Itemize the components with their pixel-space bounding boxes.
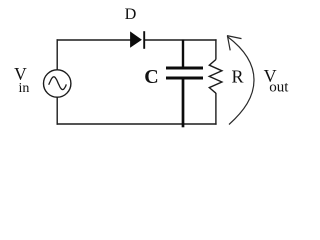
AC source V_in circle: [44, 70, 71, 97]
capacitor C top plate: [166, 66, 203, 69]
svg-text:C: C: [144, 66, 158, 88]
diode D cathode bar: [143, 31, 145, 49]
wire top-left segment: [57, 39, 132, 41]
wire bottom: [57, 123, 217, 125]
svg-text:in: in: [19, 81, 30, 96]
V_out arrowhead barb down: [227, 36, 230, 51]
wire left lower: [56, 97, 58, 125]
wire left upper: [56, 39, 58, 70]
wire right upper: [215, 39, 217, 59]
wire top-right segment: [144, 39, 217, 41]
resistor R zigzag: [209, 60, 222, 94]
svg-text:out: out: [269, 79, 289, 95]
svg-text:D: D: [125, 5, 137, 23]
wire right lower: [215, 93, 217, 125]
svg-text:R: R: [232, 67, 244, 87]
diode D triangle: [131, 32, 142, 47]
V_out curved arrow arc: [227, 37, 254, 125]
V_out arrowhead barb right: [227, 36, 242, 39]
capacitor C top lead: [182, 40, 184, 67]
capacitor C bottom plate: [166, 76, 203, 79]
AC source sine wave: [49, 77, 67, 90]
capacitor C bottom lead: [182, 80, 185, 128]
